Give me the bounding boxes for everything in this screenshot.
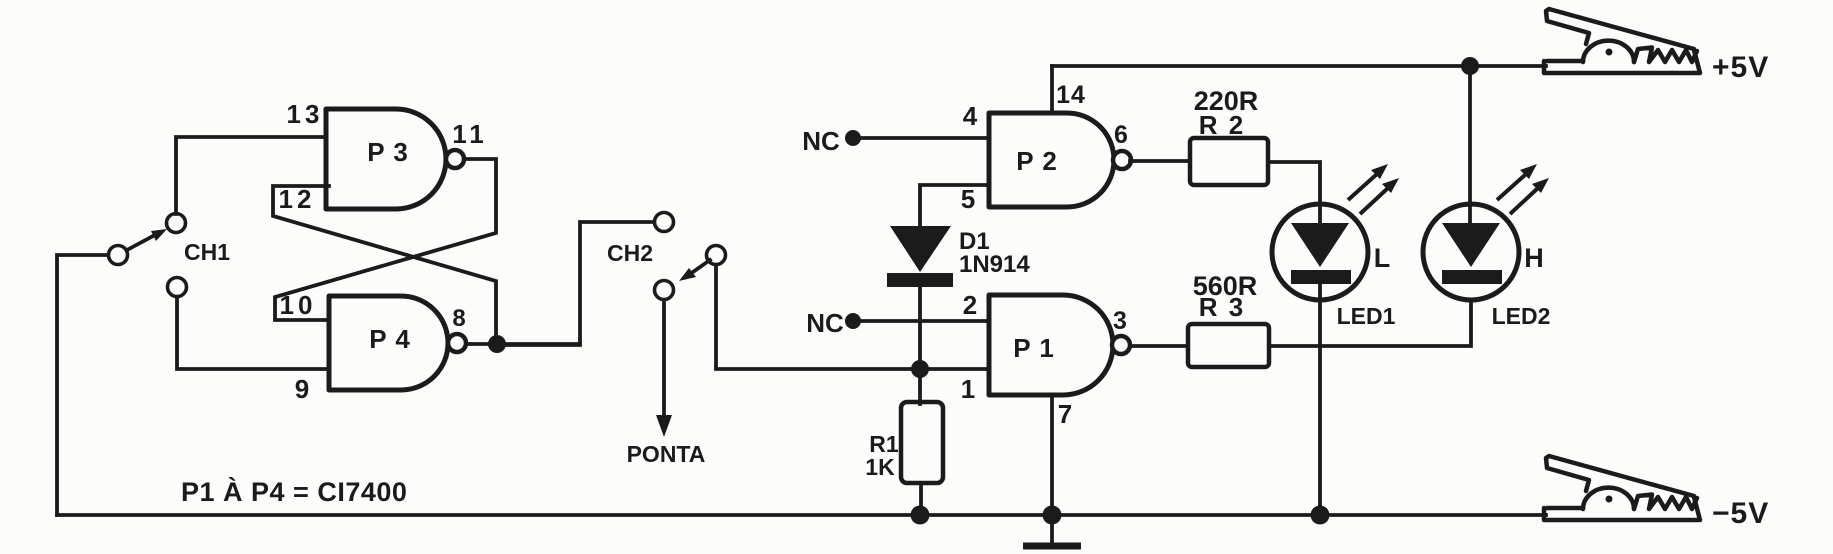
wire: bottom -5V rail: [57, 513, 1546, 517]
svg-text:PONTA: PONTA: [627, 441, 706, 467]
junction: R1 on bottom rail: [911, 506, 930, 525]
wire: D1 cathode down to node: [918, 287, 922, 369]
wire: P3 pin 12 cross-coupling from latch output node: [273, 186, 496, 345]
NC terminal dot (bottom): [845, 313, 861, 329]
svg-text:H: H: [1524, 243, 1544, 273]
junction: LED2 on +5V rail: [1461, 57, 1479, 75]
LED1 cathode bar: [1291, 270, 1351, 284]
svg-text:P1 À P4 = CI7400: P1 À P4 = CI7400: [181, 476, 407, 507]
switch CH2 right throw terminal: [707, 246, 726, 265]
svg-text:2: 2: [963, 290, 977, 320]
svg-text:5: 5: [961, 184, 975, 214]
wire: LED1 cathode down to -5V rail: [1318, 284, 1322, 515]
svg-text:1: 1: [961, 374, 975, 404]
NC terminal dot (top): [845, 130, 861, 146]
svg-text:11: 11: [452, 119, 488, 149]
resistor R1 body: [901, 402, 943, 483]
svg-text:7: 7: [1058, 399, 1072, 429]
switch CH2 wiper arrow: [679, 260, 710, 281]
wire: P1 pin 7 down to rail: [1050, 395, 1054, 515]
LED1 light arrow 2: [1360, 178, 1399, 214]
switch CH1 pole terminal: [109, 246, 128, 265]
alligator clip -5V: [1544, 456, 1700, 520]
bubble P1 output: [1112, 336, 1130, 354]
switch CH1 top throw terminal: [167, 214, 186, 233]
svg-text:13: 13: [287, 99, 324, 129]
svg-text:1K: 1K: [865, 454, 895, 480]
wire: NC to P2 pin 2: [853, 319, 989, 323]
svg-text:8: 8: [452, 305, 465, 332]
wire: P2 pin 5 to diode D1: [920, 185, 989, 228]
bubble P4 output: [448, 334, 466, 352]
svg-text:4: 4: [963, 101, 978, 131]
svg-text:−5V: −5V: [1712, 497, 1769, 530]
svg-text:CH1: CH1: [184, 239, 230, 265]
bubble P2 output: [1113, 151, 1131, 169]
LED2 anode wire from +5V rail: [1468, 66, 1472, 224]
wire: CH1 top throw to P3 pin 13: [176, 137, 326, 214]
switch CH1 bottom throw terminal: [168, 278, 187, 297]
nand gate P1: [989, 295, 1113, 395]
svg-text:R 2: R 2: [1199, 110, 1245, 140]
wire: R3 right to LED2 cathode: [1269, 300, 1471, 346]
svg-text:12: 12: [279, 184, 316, 214]
wire: R2 to LED1 anode: [1268, 162, 1320, 202]
LED2 cathode bar: [1442, 270, 1502, 284]
svg-text:P 2: P 2: [1016, 146, 1058, 176]
svg-text:LED2: LED2: [1492, 303, 1551, 329]
ground stub below rail: [1023, 515, 1081, 546]
switch CH2 pole terminal: [655, 281, 674, 300]
nand gate P3: [326, 109, 446, 209]
junction: latch output node: [488, 335, 506, 353]
LED2 circle: [1423, 204, 1519, 300]
bubble P3 output: [446, 150, 464, 168]
junction: LED1 on bottom rail: [1311, 506, 1330, 525]
wire: R1 bottom to -5V rail: [919, 483, 923, 515]
svg-text:L: L: [1374, 243, 1391, 273]
svg-text:14: 14: [1056, 81, 1086, 109]
wire: node down to resistor R1: [918, 369, 922, 404]
svg-text:1N914: 1N914: [959, 251, 1030, 278]
wire: CH2 right throw down and right to P1 pin 1: [716, 265, 989, 369]
svg-text:CH2: CH2: [607, 240, 653, 266]
switch CH1 wiper arrow: [127, 229, 167, 250]
junction: D1/R1/P1 pin1 node: [911, 360, 929, 378]
svg-text:3: 3: [1113, 307, 1127, 335]
svg-text:10: 10: [280, 290, 317, 320]
alligator clip +5V: [1544, 9, 1700, 73]
wire: P3 output cross-coupling to P4 pin 10: [275, 159, 496, 320]
LED2 triangle: [1442, 223, 1500, 267]
wire: top +5V rail: [1052, 64, 1546, 68]
svg-text:LED1: LED1: [1337, 303, 1396, 329]
svg-text:P 3: P 3: [367, 137, 409, 167]
LED2 light arrow 2: [1510, 178, 1549, 214]
junction: pin 7 on bottom rail: [1043, 506, 1062, 525]
svg-text:6: 6: [1114, 121, 1128, 149]
wire: P2 output to R2: [1130, 159, 1190, 163]
wire: P4 output to CH2 top throw: [466, 222, 655, 345]
wire: NC to P2 pin 4: [853, 136, 989, 140]
LED2 light arrow 1: [1497, 164, 1537, 200]
wire: P1 output to R3: [1130, 344, 1188, 348]
resistor R2 body: [1190, 138, 1268, 185]
LED1 anode wire inside: [1318, 204, 1322, 224]
nand gate P2: [989, 113, 1114, 207]
diode D1 triangle: [890, 226, 951, 272]
svg-text:NC: NC: [802, 126, 840, 156]
svg-text:9: 9: [295, 374, 309, 404]
wire: CH1 bottom throw to P4 pin 9: [177, 297, 329, 369]
wire: left vertical rail from CH1 pole down to bottom rail: [57, 255, 108, 515]
svg-text:P 1: P 1: [1013, 333, 1055, 363]
wire: P2 pin 14 up to +5V rail: [1050, 66, 1054, 113]
LED1 circle: [1272, 204, 1368, 300]
switch CH2 top throw terminal: [655, 213, 674, 232]
svg-text:R 3: R 3: [1199, 292, 1245, 322]
svg-text:+5V: +5V: [1712, 51, 1769, 84]
LED1 triangle: [1291, 223, 1349, 267]
wire: CH2 pole down to probe arrow PONTA: [656, 300, 672, 437]
nand gate P4: [329, 296, 448, 390]
svg-text:NC: NC: [806, 308, 844, 338]
svg-text:P 4: P 4: [369, 324, 411, 354]
LED1 light arrow 1: [1348, 164, 1388, 200]
resistor R3 body: [1188, 324, 1269, 367]
diode D1 cathode bar: [887, 273, 953, 287]
